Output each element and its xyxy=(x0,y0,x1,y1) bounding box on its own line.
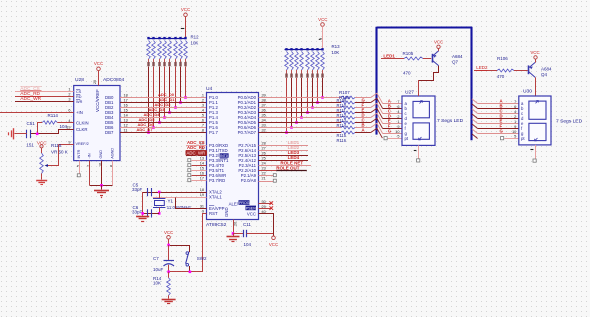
wire bus entry left row 107.5 xyxy=(371,103,383,113)
svg-text:C11: C11 xyxy=(243,222,251,227)
svg-text:CS: CS xyxy=(76,90,82,94)
wire to U27 pin 5 xyxy=(382,123,402,125)
wire bus entry left row 122.5 xyxy=(371,118,383,128)
svg-text:VCC/VREF: VCC/VREF xyxy=(95,89,100,112)
pin PSEN no-connect xyxy=(259,208,273,210)
svg-text:SW2: SW2 xyxy=(197,256,207,261)
IC U28 ADC0804 chip body xyxy=(74,86,120,161)
wire bus exit right row 113.5 xyxy=(472,109,478,114)
wire CLKR loop xyxy=(31,130,74,134)
wire P0.0 row xyxy=(259,97,342,99)
wire to U30 pin 7 xyxy=(478,133,519,135)
svg-text:10: 10 xyxy=(512,130,516,134)
svg-text:8: 8 xyxy=(202,129,204,133)
svg-text:7: 7 xyxy=(397,100,399,104)
svg-text:1: 1 xyxy=(397,120,399,124)
resistor R110 xyxy=(341,111,355,114)
svg-text:R106: R106 xyxy=(497,56,508,61)
wire GND pin xyxy=(101,161,103,186)
node LED1 xyxy=(381,58,404,60)
pin ALE no-connect xyxy=(259,203,273,205)
wire to U27 pin 7 xyxy=(382,133,402,135)
wire RST routing xyxy=(169,214,207,272)
wire R13 column to P0 row 97.5 xyxy=(322,78,324,98)
wire to U27 pin 1 xyxy=(382,103,402,105)
R12 top bus wire xyxy=(148,38,187,40)
wire to U30 pin 4 xyxy=(478,118,519,120)
svg-text:104: 104 xyxy=(244,242,252,247)
bus right edge xyxy=(470,27,472,140)
wire R13 column to P0 row 102.5 xyxy=(317,78,319,103)
svg-text:XTAL1: XTAL1 xyxy=(209,195,222,200)
svg-text:9: 9 xyxy=(397,125,399,129)
svg-text:PSEN: PSEN xyxy=(246,206,256,210)
pin INTR no-connect xyxy=(79,161,81,174)
R13 top bus wire xyxy=(285,49,324,51)
svg-text:ROLE OUT: ROLE OUT xyxy=(276,165,300,170)
svg-text:7: 7 xyxy=(514,100,516,104)
svg-text:ALE/: ALE/ xyxy=(229,202,239,207)
junction crystal top xyxy=(158,191,161,194)
wire R13 column to P0 row 127.5 xyxy=(291,78,293,128)
resistor R13 element 1 xyxy=(285,48,287,50)
svg-text:U4: U4 xyxy=(206,86,213,92)
svg-text:6: 6 xyxy=(202,119,204,123)
svg-text:R116: R116 xyxy=(337,138,347,143)
resistor R107 xyxy=(341,96,355,99)
wire C51 to ground xyxy=(15,133,27,135)
svg-text:GND: GND xyxy=(99,150,103,159)
svg-text:AGND: AGND xyxy=(110,148,114,159)
svg-text:CLKIN: CLKIN xyxy=(76,120,89,125)
svg-text:33pF: 33pF xyxy=(132,210,143,215)
resistor R112 xyxy=(341,121,355,124)
wire R12 column to ADC_D2 xyxy=(175,67,177,108)
svg-text:-IN: -IN xyxy=(88,153,92,158)
svg-text:P2.0/A8: P2.0/A8 xyxy=(241,178,257,183)
svg-text:4: 4 xyxy=(202,109,204,113)
ground below pot xyxy=(36,180,47,182)
svg-text:PROG: PROG xyxy=(239,201,250,205)
wire R13 column to P0 row 112.5 xyxy=(307,78,309,113)
pin P2.0 no-connect xyxy=(259,181,274,183)
node ADC_RD wire xyxy=(15,96,74,98)
wire R13 column to P0 row 122.5 xyxy=(296,78,298,123)
wire ADC_D4 net row xyxy=(120,117,207,119)
svg-text:ADC_D7: ADC_D7 xyxy=(137,127,154,132)
svg-text:10K: 10K xyxy=(153,281,161,286)
wire ADC_D6 net row xyxy=(120,127,207,129)
node ADC_RD at P3.1 xyxy=(186,150,207,152)
pin pt no-connect U27 xyxy=(384,137,387,140)
ground below R14 xyxy=(162,299,176,301)
svg-text:LED1: LED1 xyxy=(383,53,395,58)
resistor R12 element 7 xyxy=(179,37,181,39)
resistor R105 xyxy=(404,57,423,60)
switch SW2 xyxy=(186,252,189,255)
wire pot bottom xyxy=(41,174,43,180)
resistor R12 element 3 xyxy=(158,37,160,39)
svg-text:10K: 10K xyxy=(191,41,199,46)
wire R114 left leg down xyxy=(38,123,43,134)
resistor R12 element 2 xyxy=(152,37,154,39)
wire P0.6 row xyxy=(259,127,342,129)
resistor R114 xyxy=(42,121,57,124)
wire to U30 pin 6 xyxy=(478,128,519,130)
svg-text:VCC: VCC xyxy=(434,40,443,45)
node LED4 at P2.4 xyxy=(259,160,309,162)
node ADC_CS wire xyxy=(15,91,74,93)
junction C51/R114 xyxy=(36,133,39,136)
svg-text:1: 1 xyxy=(514,120,516,124)
svg-text:VCC: VCC xyxy=(247,212,256,217)
svg-text:ADC_WR: ADC_WR xyxy=(187,150,206,155)
svg-text:CLKR: CLKR xyxy=(76,127,87,132)
svg-text:Q4: Q4 xyxy=(541,72,548,77)
wire bus exit right row 123.5 xyxy=(472,119,478,124)
wire bus entry left row 132.5 xyxy=(371,128,383,138)
svg-text:LED4: LED4 xyxy=(288,155,300,160)
svg-text:LED2: LED2 xyxy=(476,65,488,70)
svg-text:31: 31 xyxy=(200,205,204,209)
wire P0.4 row xyxy=(259,117,342,119)
crystal Y1 xyxy=(159,192,161,198)
svg-text:A684: A684 xyxy=(452,54,463,59)
resistor R13 element 7 xyxy=(316,48,318,50)
wire bus entry left row 117.5 xyxy=(371,113,383,123)
resistor R113 xyxy=(341,126,355,129)
svg-text:A684: A684 xyxy=(541,66,552,71)
pin P3.4 no-connect xyxy=(192,165,207,167)
svg-text:20: 20 xyxy=(93,80,97,84)
wire P0.5 row xyxy=(259,122,342,124)
svg-text:U28: U28 xyxy=(75,77,84,83)
svg-text:R12: R12 xyxy=(191,35,200,40)
svg-text:VREF/2: VREF/2 xyxy=(76,142,89,146)
node LED3 at P2.5 xyxy=(259,155,309,157)
svg-text:3: 3 xyxy=(202,104,204,108)
wire VCC to pin 20 xyxy=(98,71,100,86)
svg-text:Y1: Y1 xyxy=(168,198,174,203)
resistor R13 element 6 xyxy=(311,48,313,50)
svg-text:151: 151 xyxy=(26,142,34,147)
svg-text:VCC: VCC xyxy=(164,230,173,235)
wire P0.2 row xyxy=(259,107,342,109)
svg-text:2: 2 xyxy=(514,115,516,119)
pin P2.1 no-connect xyxy=(259,175,274,177)
wire U27 common anode top xyxy=(418,80,420,96)
wire to U27 pin 6 xyxy=(382,128,402,130)
node ROLE OUT xyxy=(259,170,277,172)
wire R13 column to P0 row 107.5 xyxy=(312,78,314,108)
svg-text:C7: C7 xyxy=(153,256,159,261)
pin P3.6 no-connect xyxy=(192,175,207,177)
svg-text:11.0592MHz: 11.0592MHz xyxy=(167,205,191,210)
resistor R12 element 1 xyxy=(147,37,149,39)
resistor R12 element 8 xyxy=(184,37,186,39)
VCC power port below xyxy=(272,236,276,240)
wire ADC_D7 net row xyxy=(120,132,207,134)
svg-text:4: 4 xyxy=(514,110,516,114)
wire crystal bottom xyxy=(159,208,161,214)
svg-text:7 Segs LED: 7 Segs LED xyxy=(556,119,583,125)
microcontroller U4 AT89C52 body xyxy=(207,93,259,220)
wire R12 column to ADC_D0 xyxy=(185,67,187,98)
wire ADC_D1 net row xyxy=(120,102,207,104)
node LED2 xyxy=(474,70,497,72)
no-ERC mark xyxy=(181,28,185,30)
wire R105 to base xyxy=(423,58,431,60)
resistor R106 xyxy=(497,69,514,72)
resistor R13 element 5 xyxy=(306,48,308,50)
resistor R108 xyxy=(341,101,355,104)
wire R12 column to ADC_D7 xyxy=(148,67,150,133)
svg-text:2: 2 xyxy=(397,115,399,119)
svg-text:10: 10 xyxy=(395,130,399,134)
node LED1 at P2.7 xyxy=(259,145,309,147)
svg-text:R114: R114 xyxy=(337,123,347,128)
wire ADC_D3 net row xyxy=(120,112,207,114)
wire to U30 pin 1 xyxy=(478,103,519,105)
wire to U27 pin 4 xyxy=(382,118,402,120)
svg-text:R105: R105 xyxy=(403,51,414,56)
svg-text:10uF: 10uF xyxy=(153,267,164,272)
resistor R111 xyxy=(341,116,355,119)
svg-text:VCC: VCC xyxy=(269,242,278,247)
wire R12 column to ADC_D5 xyxy=(159,67,161,123)
svg-text:4: 4 xyxy=(397,110,399,114)
resistor R13 element 3 xyxy=(295,48,297,50)
svg-text:21: 21 xyxy=(262,177,266,181)
wire joining gnd pins xyxy=(90,185,113,187)
node ADC_CS at P3.0 xyxy=(186,145,207,147)
wire R12 column to ADC_D6 xyxy=(153,67,155,128)
wire EA/VPP xyxy=(176,198,207,209)
svg-text:Q7: Q7 xyxy=(452,59,459,64)
svg-text:20: 20 xyxy=(234,222,238,226)
svg-text:1: 1 xyxy=(202,94,204,98)
node ADC_WR wire xyxy=(15,101,74,103)
svg-text:VCC: VCC xyxy=(94,61,103,66)
svg-text:RST: RST xyxy=(209,211,218,216)
svg-text:U30: U30 xyxy=(523,89,532,95)
svg-text:+IN: +IN xyxy=(76,110,83,115)
pin P3.3 no-connect xyxy=(192,160,207,162)
wire bus exit right row 103.5 xyxy=(472,99,478,104)
wire XTAL2 row xyxy=(143,192,207,194)
wire ADC_D0 net row xyxy=(120,97,207,99)
wire +IN input from left edge xyxy=(0,112,74,114)
wire Q7 collector to U27 xyxy=(419,66,439,81)
svg-text:9: 9 xyxy=(68,141,70,145)
wire bus entry left row 112.5 xyxy=(371,108,383,118)
svg-text:ADC_WR: ADC_WR xyxy=(20,96,41,102)
pin U30 bottom no-connect xyxy=(535,145,537,159)
wire R12 column to ADC_D4 xyxy=(164,67,166,118)
wire cap common to ground xyxy=(142,192,144,216)
pin P3.5 no-connect xyxy=(192,170,207,172)
wire R13 column to P0 row 132.5 xyxy=(286,78,288,133)
wire to U30 pin 5 xyxy=(478,123,519,125)
resistor R12 element 5 xyxy=(168,37,170,39)
svg-text:5: 5 xyxy=(202,114,204,118)
svg-text:R114: R114 xyxy=(48,113,59,118)
pin pt no-connect U30 xyxy=(501,137,504,140)
node LED2 at P2.6 xyxy=(259,150,309,152)
wire to U30 pin 3 xyxy=(478,113,519,115)
wire bus exit right row 128.5 xyxy=(472,124,478,129)
wire U4 GND pin 20 xyxy=(233,220,235,234)
wire P0.7 row xyxy=(259,132,342,134)
svg-text:VCC: VCC xyxy=(530,50,539,55)
transistor Q4 A684 (PNP) xyxy=(528,65,530,74)
wire bus exit right row 133.5 xyxy=(472,129,478,134)
wire VCC pin 40 xyxy=(259,214,274,237)
resistor R13 element 8 xyxy=(321,48,323,50)
wire VREF/2 pin 9 xyxy=(58,144,73,146)
svg-text:33pF: 33pF xyxy=(132,187,143,192)
svg-text:104: 104 xyxy=(60,124,68,129)
wire bus exit right row 118.5 xyxy=(472,114,478,119)
node ROLE NET xyxy=(259,165,311,167)
svg-text:470: 470 xyxy=(403,71,411,76)
svg-text:C51: C51 xyxy=(27,121,36,126)
svg-text:A: A xyxy=(362,127,365,132)
wire bus exit right row 138.5 xyxy=(472,134,478,139)
svg-text:GND: GND xyxy=(224,207,229,217)
wire R13 column to P0 row 117.5 xyxy=(301,78,303,118)
wire C6 row xyxy=(143,213,160,215)
svg-text:10K: 10K xyxy=(332,50,340,55)
pot wiper arrow xyxy=(48,145,59,166)
wire R12 column to ADC_D3 xyxy=(169,67,171,113)
svg-text:2: 2 xyxy=(202,99,204,103)
wire to U27 pin 3 xyxy=(382,113,402,115)
ground below U4 xyxy=(233,234,235,237)
svg-text:6: 6 xyxy=(514,105,516,109)
svg-text:P3.7/RD: P3.7/RD xyxy=(209,178,225,183)
wire bus exit right row 108.5 xyxy=(472,104,478,109)
svg-text:7: 7 xyxy=(202,124,204,128)
svg-text:VCC: VCC xyxy=(181,7,190,12)
wire ADC_D2 net row xyxy=(120,107,207,109)
svg-text:R13: R13 xyxy=(332,44,341,49)
svg-text:P1.7: P1.7 xyxy=(209,130,218,135)
svg-text:2: 2 xyxy=(68,93,70,97)
wire -IN to gnd xyxy=(89,161,91,186)
node ADC_WR at P3.2 xyxy=(186,155,207,157)
svg-text:7 Segs LED: 7 Segs LED xyxy=(437,118,464,124)
wire ADC_D5 net row xyxy=(120,122,207,124)
wire to U27 pin 2 xyxy=(382,108,402,110)
pin P3.7 no-connect xyxy=(192,180,207,182)
bus left edge xyxy=(375,27,377,135)
pin U27 bottom no-connect xyxy=(418,145,420,158)
wire VCC to R13 bus xyxy=(322,26,324,49)
svg-text:9: 9 xyxy=(514,125,516,129)
resistor R12 element 4 xyxy=(163,37,165,39)
svg-text:19: 19 xyxy=(200,193,204,197)
wire bus entry left row 97.5 xyxy=(371,93,383,103)
svg-text:R115: R115 xyxy=(51,143,62,148)
wire bus entry left row 127.5 xyxy=(371,123,383,133)
wire CLKIN xyxy=(57,122,73,124)
no-ERC mark xyxy=(319,38,322,41)
resistor R13 element 4 xyxy=(300,48,302,50)
wire VCC node to SW2 xyxy=(169,246,190,253)
svg-text:U27: U27 xyxy=(405,90,414,96)
svg-text:INTR: INTR xyxy=(77,149,81,158)
svg-text:P0.7/AD7: P0.7/AD7 xyxy=(238,130,257,135)
resistor R114 xyxy=(341,131,355,134)
svg-text:VR 50 K: VR 50 K xyxy=(51,149,68,154)
svg-text:18: 18 xyxy=(200,188,204,192)
ground (rotated) at C51 xyxy=(13,128,15,139)
svg-text:AT89C52: AT89C52 xyxy=(206,222,227,228)
wire P0.1 row xyxy=(259,102,342,104)
svg-text:9: 9 xyxy=(202,210,204,214)
svg-text:RD: RD xyxy=(76,95,82,99)
junction reset node xyxy=(167,271,170,274)
wire Q4 collector to U30 xyxy=(535,77,537,96)
svg-text:470: 470 xyxy=(497,74,505,79)
wire to U30 pin 2 xyxy=(478,108,519,110)
svg-text:ADC_RD: ADC_RD xyxy=(20,91,40,97)
wire VCC to R12 bus xyxy=(185,17,187,38)
svg-text:6: 6 xyxy=(397,105,399,109)
resistor R12 element 6 xyxy=(174,37,176,39)
wire bus entry left row 102.5 xyxy=(371,98,383,108)
wire AGND pin xyxy=(112,161,114,186)
capacitor C7 electrolytic xyxy=(168,245,170,260)
svg-text:WR: WR xyxy=(76,100,83,104)
resistor R109 xyxy=(341,106,355,109)
svg-text:VCC: VCC xyxy=(318,17,327,22)
sheet bracket top edge xyxy=(377,26,472,28)
ground below C5/C6 xyxy=(136,216,149,218)
ground below U28 xyxy=(101,185,103,189)
wire P0.3 row xyxy=(259,112,342,114)
resistor R13 element 2 xyxy=(290,48,292,50)
svg-text:DB7: DB7 xyxy=(105,130,114,135)
svg-text:ADC0804: ADC0804 xyxy=(103,77,124,83)
wire XTAL1 row xyxy=(153,197,207,199)
transistor Q7 A684 (PNP) xyxy=(432,54,434,63)
svg-text:ADC_RD: ADC_RD xyxy=(187,145,205,150)
wire R12 column to ADC_D1 xyxy=(180,67,182,103)
